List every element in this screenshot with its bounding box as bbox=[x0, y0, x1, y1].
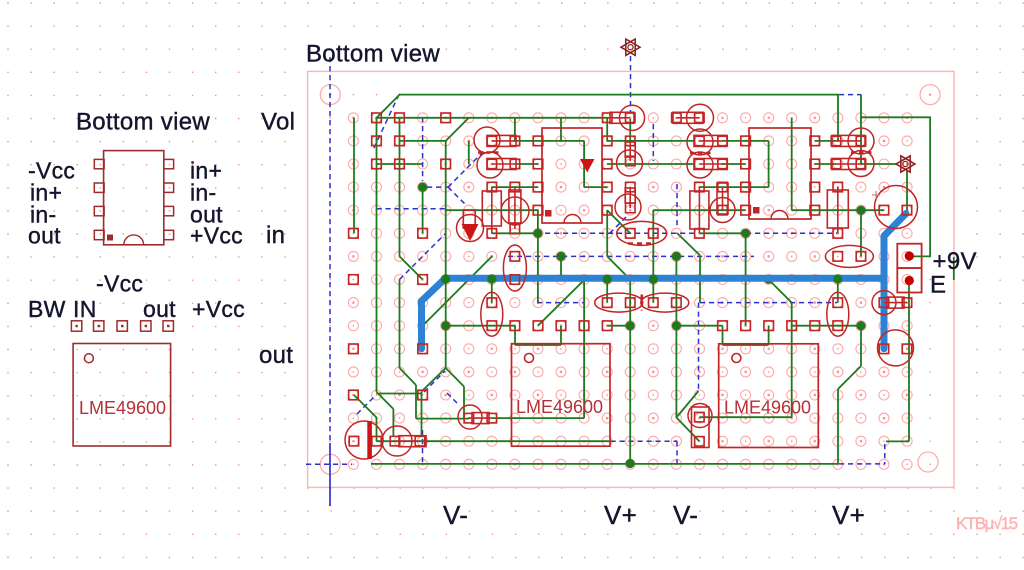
polarity dashes C1/C2 bbox=[478, 151, 500, 154]
reference DIP-8 bottom view symbol bbox=[104, 151, 164, 245]
trace diag col14-col15 bbox=[677, 233, 700, 255]
svg-text:KTBμ√15: KTBμ√15 bbox=[956, 514, 1018, 533]
jumper row5 right bbox=[746, 232, 837, 234]
svg-text:IN: IN bbox=[73, 296, 97, 322]
node col17 row5 bbox=[741, 229, 750, 238]
trace col5 vertical bbox=[468, 141, 470, 164]
jumper diag near R16 bbox=[447, 393, 457, 403]
jumper from star J1 down to pad col12 bbox=[630, 56, 632, 112]
trace col8 row4-5 bbox=[537, 210, 539, 302]
trace col22 row4-row6 bbox=[860, 210, 862, 256]
trace row9 left bbox=[446, 325, 515, 327]
diode D2 with ring bbox=[457, 215, 484, 242]
test point star J1 top bbox=[626, 39, 640, 55]
trace col25 vertical to +9V bbox=[929, 117, 931, 257]
jumper row8 right bbox=[700, 302, 837, 304]
trace row2 R8-U2 bbox=[723, 163, 746, 165]
trace col22 R13-R14 bbox=[860, 141, 862, 164]
trace R16 left lead bbox=[416, 418, 469, 420]
trace col22 top elbow bbox=[860, 95, 862, 141]
svg-text:V+: V+ bbox=[604, 500, 637, 530]
node col14 row9 bbox=[672, 321, 681, 330]
trace row2 to star J2 bbox=[861, 163, 898, 165]
node col4 row9 bbox=[441, 321, 450, 330]
cap C15 big right bbox=[875, 186, 918, 229]
svg-text:V-: V- bbox=[443, 500, 468, 530]
cap C11 col21 rows8-9 bbox=[827, 292, 849, 336]
lone pads bbox=[372, 113, 382, 123]
resistor R8 + cap C8 cols15-16 row2 bbox=[687, 152, 713, 178]
trace star J2 down to wire pad bbox=[906, 171, 908, 210]
diode marker D1 in U1 bbox=[580, 159, 595, 173]
trace row4 right bbox=[815, 209, 884, 211]
trace row4 mid bbox=[653, 209, 745, 211]
trace row1 R7-U2 bbox=[723, 140, 746, 142]
trace row2 left bbox=[377, 163, 423, 165]
trace stub right edge bbox=[953, 257, 955, 280]
jumper diagonal near U1 bbox=[608, 217, 626, 235]
trace col13 vertical bbox=[652, 233, 654, 302]
origin cross horizontal dashed bbox=[306, 463, 352, 465]
op-amp U2 DIP-8 bbox=[749, 128, 811, 219]
cap C22 + resistor R18 bottom-left bbox=[382, 426, 412, 456]
jumper col14 bottom bbox=[676, 441, 678, 463]
trace col9 row6-row7 bbox=[560, 256, 562, 279]
cap C23 col7 rows6-7 bbox=[503, 245, 526, 291]
reference LME49600 symbol bbox=[73, 344, 171, 447]
trace U4 pin loop bbox=[722, 326, 724, 345]
resistor R12 + cap C9 col16 rows3-4 bbox=[710, 198, 735, 223]
trace top long horizontal bbox=[399, 94, 838, 96]
jumper col3 bottom bbox=[422, 430, 424, 464]
jumper vertical col15 bbox=[698, 303, 700, 390]
cap C18 cols13-14 row8 bbox=[641, 293, 689, 312]
trace row-1 right horizontal bbox=[861, 116, 931, 118]
trace R1 to U1 row1 through body bbox=[515, 140, 584, 142]
resistor R13 + cap C13 cols21-22 row1 bbox=[848, 128, 874, 154]
svg-text:out: out bbox=[143, 296, 176, 322]
trace R2 to U1 row2 bbox=[515, 163, 538, 165]
trace row1 mid bbox=[607, 140, 695, 142]
trace U4 internal route bbox=[699, 416, 791, 418]
trace diag pad(0,12) to C21 bbox=[354, 395, 377, 418]
trace row3 mid bbox=[699, 186, 745, 188]
svg-text:out: out bbox=[259, 342, 293, 369]
trace col7 row0-row1 bbox=[514, 118, 516, 141]
nodes on wire W1 bbox=[441, 274, 450, 283]
mounting hole top-right bbox=[920, 85, 940, 105]
jumper row8 under U3 bbox=[537, 302, 585, 304]
trace row0 horizontal bbox=[377, 117, 608, 119]
jumper row5 left bbox=[545, 232, 698, 234]
jumper row6 bbox=[508, 255, 754, 257]
cap C17 cols11-12 row8 bbox=[595, 293, 643, 312]
buffer U4 LME49600 bbox=[719, 344, 819, 448]
resistor R6 + cap C6 top row cols14-15 bbox=[687, 104, 714, 131]
buffer U3 LME49600 bbox=[512, 344, 611, 447]
trace U3 pin loop bbox=[514, 326, 516, 345]
trace row5 mid bbox=[699, 232, 745, 234]
trace row9 col11-col12 bbox=[607, 325, 630, 327]
jumper row14 bbox=[611, 440, 678, 442]
trace row9 right bbox=[792, 325, 861, 327]
trace bottom long horizontal bbox=[371, 463, 838, 465]
resistor R16 cols5-6 row13 bbox=[458, 405, 482, 429]
svg-text:BW: BW bbox=[28, 296, 66, 322]
trace col0 vertical bbox=[353, 118, 355, 234]
resistor R3 col12 rows1-2 bbox=[617, 150, 643, 176]
svg-text:+Vcc: +Vcc bbox=[190, 223, 243, 249]
trace U2 internal loop bbox=[746, 140, 769, 142]
svg-text:LME49600: LME49600 bbox=[516, 397, 603, 417]
polarity dashes C16 bbox=[628, 242, 654, 244]
svg-text:E: E bbox=[930, 272, 946, 299]
svg-text:LME49600: LME49600 bbox=[79, 398, 166, 418]
trace +9V connector link bbox=[909, 255, 931, 257]
trace long diagonal to col3 row9 bbox=[423, 256, 493, 326]
plus mark near C15 bbox=[872, 191, 880, 199]
jumper bottom right horizontal bbox=[839, 463, 885, 465]
jumper top right gap bbox=[839, 94, 861, 96]
trace row4 to diode bbox=[446, 209, 538, 211]
trace row14 horizontal bbox=[377, 440, 610, 442]
svg-text:Vol: Vol bbox=[261, 109, 295, 136]
jumper diagonal near origin bbox=[357, 396, 375, 414]
jumper col14 vertical top bbox=[676, 184, 678, 229]
trace row1 left bbox=[400, 140, 446, 142]
resistor R15 col21 rows3-5 bbox=[837, 187, 839, 233]
origin cross vertical solid bbox=[329, 443, 331, 506]
op-amp U1 DIP-8 bbox=[542, 128, 602, 223]
connector J3 +9V/E bbox=[897, 244, 921, 268]
svg-text:V+: V+ bbox=[832, 500, 865, 530]
jumper near E pad bbox=[884, 444, 886, 464]
cap C12 cols21-22 row6 bbox=[825, 245, 873, 267]
cap C21 big bottom-left with polarity bar bbox=[345, 421, 383, 459]
node col12 row9 bbox=[626, 321, 635, 330]
resistor R4 col12 rows3-4 bbox=[615, 194, 641, 220]
board inner grid dots bbox=[330, 94, 931, 465]
resistor R14 + cap C14 cols21-22 row2 bbox=[848, 151, 874, 177]
trace diag U1pin-col8 to wire bbox=[538, 280, 585, 326]
jumper diag pad(3,12) bbox=[424, 371, 445, 392]
cap C16 cols12-13 row5 bbox=[617, 221, 667, 245]
svg-text:-Vcc: -Vcc bbox=[96, 271, 143, 297]
jumper diagonal to diode bbox=[448, 187, 467, 206]
resistor R2 + cap C2 cols6-7 row2 bbox=[477, 152, 503, 178]
trace col1 vertical bbox=[376, 118, 378, 392]
node col22 row9 bbox=[856, 321, 865, 330]
mounting hole bottom-right bbox=[918, 452, 938, 472]
trace row12 col1-col3 bbox=[377, 393, 423, 395]
trace col14 vertical bbox=[675, 256, 677, 417]
trace row3 to U1 bbox=[492, 186, 538, 188]
jumper vertical col3 bbox=[422, 117, 424, 181]
wire jumper vertical left (origin axis) bbox=[329, 57, 331, 443]
jumper row3 from node bbox=[427, 186, 448, 188]
trace elbow col21 to R13 bbox=[837, 94, 839, 141]
polarity dashes C13/C14 bbox=[851, 151, 873, 154]
trace col15 vertical bbox=[699, 255, 701, 302]
trace U2 col19 route bbox=[791, 118, 793, 210]
trace row5 left green bbox=[492, 232, 538, 234]
trace wire-to-C10 col6 bbox=[491, 280, 493, 303]
resistor R11 col15 rows3-5 bbox=[698, 187, 700, 233]
trace col4 vertical bbox=[445, 141, 447, 368]
svg-text:Bottom view: Bottom view bbox=[76, 109, 210, 136]
cap C10 col6 rows8-9 bbox=[481, 292, 503, 336]
node col22 row4 bbox=[856, 206, 865, 215]
trace U2 pin row1 bbox=[815, 140, 836, 142]
node wire col18 bbox=[764, 275, 773, 284]
test point star J2 right bbox=[901, 156, 915, 172]
svg-text:Bottom view: Bottom view bbox=[306, 41, 440, 68]
trace col2 vertical bbox=[399, 118, 401, 257]
jumper diagonal col2-col4 bbox=[400, 233, 446, 279]
trace E vertical bbox=[908, 281, 910, 441]
trace col22 down diag bbox=[860, 326, 862, 366]
trace col17 vertical bbox=[745, 233, 747, 325]
node col9 row6 bbox=[556, 252, 565, 261]
trace col9 row0 stub bbox=[560, 118, 562, 141]
trace col12 vertical long bbox=[629, 326, 631, 464]
jumper row4 bbox=[377, 208, 446, 210]
trace col12 R5-R14 bbox=[629, 119, 631, 142]
jumper col13 rows0-2 bbox=[652, 124, 654, 161]
cap C19 circle right row10 bbox=[878, 330, 914, 366]
trace wire-to-C11 col21 bbox=[837, 280, 839, 303]
node col3 row3 bbox=[418, 183, 427, 192]
trace diag row0-col4 bbox=[446, 118, 469, 141]
resistor R10 + cap C4 col7 rows3-5 bbox=[501, 197, 529, 225]
svg-text:out: out bbox=[28, 223, 61, 249]
pad hole grid bbox=[348, 113, 912, 470]
resistor R19 + ring between U3 U4 bbox=[688, 404, 712, 428]
trace col11 R5 lead bbox=[606, 118, 608, 141]
svg-text:V-: V- bbox=[673, 500, 698, 530]
node col14 row6 bbox=[672, 252, 681, 261]
trace col11 vertical to wire bbox=[606, 210, 608, 256]
trace along wire row bbox=[492, 279, 607, 281]
trace col3 vertical bbox=[422, 187, 424, 233]
perfboard outline bbox=[308, 71, 954, 487]
polarity dashes C17/C18 bbox=[640, 295, 643, 311]
node col8 row5 bbox=[533, 229, 542, 238]
jumper diagonal to C cluster bbox=[448, 151, 484, 187]
mounting hole bottom-left bbox=[320, 454, 340, 474]
trace diag U1 pin8 to C7 bbox=[607, 210, 630, 233]
svg-text:LME49600: LME49600 bbox=[724, 398, 811, 418]
resistor R9 col6 rows3-5 bbox=[491, 187, 493, 233]
trace diag to top long bbox=[376, 94, 401, 119]
resistor R17 + cap C20 cols23-24 row8 bbox=[872, 291, 896, 315]
trace row2 mid bbox=[607, 163, 695, 165]
trace col13 elbow bbox=[652, 210, 654, 233]
jumper diagonal top-left bbox=[373, 95, 399, 151]
resistor R5 + cap C5 top row cols11-12 bbox=[619, 105, 644, 130]
node col12 row15 bbox=[626, 459, 635, 468]
svg-text:in: in bbox=[266, 222, 285, 249]
resistor R1 + cap C1 cols6-7 row1 bbox=[474, 127, 500, 153]
resistor R7 + cap C7a cols15-16 row1 bbox=[687, 129, 713, 155]
mounting hole top-left bbox=[320, 85, 340, 105]
trace row9 col14-col16 bbox=[676, 325, 722, 327]
hookup wire W1 (thick blue) bbox=[422, 214, 907, 349]
trace col10 vertical to pad bbox=[583, 280, 585, 419]
trace U2 pin row2 bbox=[815, 163, 836, 165]
polarity dashes C7a/C8 bbox=[690, 152, 712, 155]
svg-text:+Vcc: +Vcc bbox=[192, 296, 245, 322]
